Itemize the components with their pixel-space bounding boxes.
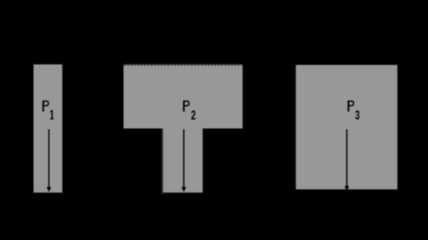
label P3: [348, 101, 355, 112]
arrow P2: [182, 129, 187, 192]
column P1 body: [34, 64, 63, 192]
svg-text:2: 2: [191, 109, 196, 123]
subscript 3: [355, 109, 360, 123]
subscript 2: [191, 109, 196, 123]
label P1: [42, 101, 49, 112]
svg-text:3: 3: [355, 109, 360, 123]
arrow P3: [345, 129, 350, 191]
arrow P1: [47, 129, 52, 192]
dashed water level line on T-shape top: [124, 64, 243, 66]
T-shape P2 body: [124, 64, 243, 192]
subscript 1: [50, 110, 54, 119]
faint vertical ghost line left of stem: [161, 129, 163, 195]
rectangle P3 body: [296, 65, 398, 189]
label P2: [183, 101, 190, 112]
